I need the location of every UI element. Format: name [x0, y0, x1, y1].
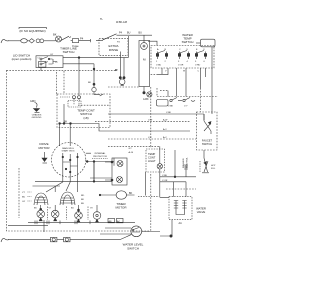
buzzer circle: [141, 43, 148, 50]
coil stack right: [184, 165, 188, 169]
svg-text:SWITCH: SWITCH: [182, 40, 194, 44]
console dashed box left: [7, 70, 151, 231]
svg-text:A-BK: A-BK: [143, 98, 149, 101]
svg-text:INTERNAL: INTERNAL: [95, 152, 107, 155]
svg-text:MOTOR: MOTOR: [38, 146, 50, 150]
pump box M: [139, 41, 150, 87]
wire to water level switch: [70, 235, 132, 240]
svg-text:C2: C2: [55, 62, 58, 64]
dashed harness line: [7, 69, 116, 71]
right bus lines: [108, 114, 204, 120]
junction dot: [143, 92, 145, 94]
connector box top right: [201, 39, 216, 47]
TEMP CONT SWITCH box: [57, 94, 110, 128]
svg-text:TL: TL: [100, 18, 103, 21]
svg-text:P4: P4: [117, 42, 120, 44]
svg-text:P4: P4: [119, 32, 123, 35]
svg-text:C: C: [179, 49, 181, 51]
valve coil 1: [174, 201, 178, 211]
extra rinse box: [99, 39, 128, 56]
svg-text:BK: BK: [53, 33, 57, 37]
power cord hook: [1, 39, 9, 43]
arrow switch right: [204, 150, 208, 172]
lid switch box: [36, 56, 63, 68]
label (IF SO EQUIPPED): [19, 28, 47, 29]
dashed stub left of pump box: [108, 86, 139, 88]
wire to buzzer / water temp: [117, 34, 153, 36]
wire A to right: [63, 57, 128, 59]
faucet switch box: [197, 112, 218, 150]
svg-text:6: 6: [204, 61, 206, 63]
fuse F1: [71, 40, 73, 42]
wires below motor: [63, 176, 78, 182]
svg-text:BK: BK: [88, 82, 91, 84]
svg-text:V-OR: V-OR: [178, 65, 184, 67]
svg-text:V-Y: V-Y: [184, 106, 188, 108]
svg-text:BK: BK: [129, 192, 133, 195]
dashed from terminals right: [78, 104, 110, 106]
svg-text:SWITCH: SWITCH: [63, 50, 75, 54]
valve coil 2: [182, 201, 186, 211]
svg-text:AC: AC: [117, 220, 120, 223]
ground arrow left of motor: [44, 152, 46, 158]
water valve box: [169, 197, 192, 220]
dashed mid right: [160, 90, 168, 92]
vertical from extra rinse wire: [127, 36, 129, 58]
right mid vertical: [174, 150, 176, 177]
svg-text:VT: VT: [49, 208, 52, 210]
bell shapes (motor protector): [34, 193, 48, 205]
timer line switch contact: [61, 36, 69, 40]
console light box: [112, 158, 127, 185]
pressure switch symbols right: [167, 91, 169, 97]
svg-text:A-V: A-V: [163, 128, 167, 131]
right horizontal wires to valve: [160, 176, 196, 178]
circle TD: [147, 92, 152, 97]
svg-text:V-BK: V-BK: [168, 106, 174, 108]
svg-text:P4: P4: [80, 37, 84, 41]
svg-text:GY: GY: [22, 201, 26, 203]
inline component 2: [64, 237, 70, 241]
water temp box drops: [158, 47, 212, 114]
svg-text:BK: BK: [34, 208, 37, 210]
svg-text:GROUND: GROUND: [32, 117, 42, 119]
svg-text:TEMP: TEMP: [148, 152, 155, 156]
inline component 1: [51, 237, 57, 241]
svg-text:RINSE: RINSE: [109, 48, 118, 52]
svg-text:VALVE: VALVE: [197, 210, 206, 214]
drop to temp cont terminals: [78, 58, 80, 95]
svg-text:BK: BK: [81, 199, 84, 201]
svg-text:(x8): (x8): [83, 116, 88, 120]
svg-text:A-C: A-C: [163, 136, 167, 139]
svg-text:BU: BU: [71, 208, 74, 210]
svg-text:5: 5: [195, 61, 197, 63]
svg-text:V-RD: V-RD: [195, 65, 201, 67]
svg-text:BU: BU: [22, 197, 25, 199]
svg-text:GY: GY: [90, 208, 94, 210]
connector oval: [21, 39, 28, 43]
svg-text:MOTOR: MOTOR: [115, 206, 127, 210]
svg-text:2: 2: [165, 61, 167, 63]
drive motor dashed circle: [51, 143, 85, 177]
terminal dashed box: [68, 101, 81, 108]
svg-text:W: W: [183, 71, 186, 73]
solenoid bottom bus: [28, 221, 135, 223]
svg-text:V-BU: V-BU: [156, 65, 162, 67]
bottom left cross component: [43, 220, 45, 232]
wire: [27, 40, 29, 42]
feed wires into motor: [60, 124, 71, 147]
solenoid 2: [51, 210, 59, 218]
svg-text:Fuse: Fuse: [72, 44, 79, 48]
svg-text:GY: GY: [129, 148, 133, 150]
svg-text:V-OR: V-OR: [162, 180, 168, 182]
svg-text:WASHER: WASHER: [182, 158, 185, 168]
water level switch: [131, 226, 142, 237]
svg-text:FAUCET: FAUCET: [202, 138, 213, 142]
wire bus above solenoids: [33, 181, 95, 186]
connector block mid: [157, 100, 169, 107]
svg-text:V-BU: V-BU: [162, 175, 168, 177]
temp cont connector terminals: [73, 96, 76, 99]
extra water temp drops: [162, 68, 206, 97]
solenoid 3: [75, 212, 83, 220]
bottom long wire with hook: [1, 238, 9, 242]
svg-text:4: 4: [187, 61, 189, 63]
svg-text:(IF SO EQUIPPED): (IF SO EQUIPPED): [19, 29, 45, 33]
svg-text:M: M: [143, 58, 146, 62]
dashed stub below TD: [157, 96, 218, 98]
wire: [44, 40, 56, 42]
TEMP CONT LIGHT box: [146, 149, 165, 172]
svg-text:FILL: FILL: [211, 168, 216, 170]
svg-text:V: V: [165, 71, 167, 73]
svg-text:A-W: A-W: [163, 119, 168, 122]
connector circle X: [56, 36, 62, 42]
small relay boxes bottom middle: [108, 218, 115, 222]
svg-text:1: 1: [156, 61, 158, 63]
console right edge dashed: [150, 87, 152, 148]
svg-text:CONTROL: CONTROL: [187, 157, 189, 168]
temp cont light bulb: [157, 164, 162, 169]
svg-text:START WDG: START WDG: [62, 150, 75, 153]
water temp switch box: [151, 46, 214, 69]
wire B: [63, 64, 94, 69]
svg-text:V-BK: V-BK: [166, 112, 172, 114]
wires down to water valve: [174, 182, 187, 197]
svg-text:W-BK-128: W-BK-128: [116, 21, 128, 24]
svg-text:LIGHT: LIGHT: [148, 159, 156, 163]
svg-text:CONT: CONT: [148, 155, 156, 159]
wire: [8, 40, 21, 42]
svg-text:3: 3: [178, 61, 180, 63]
svg-text:C: C: [198, 71, 200, 73]
vertical to dashed corner: [145, 172, 147, 196]
solenoid 1: [37, 210, 45, 218]
diamond connector: [29, 39, 34, 43]
svg-text:BU: BU: [139, 32, 143, 35]
svg-text:E: E: [196, 49, 198, 51]
svg-text:MAIN WDG: MAIN WDG: [62, 147, 74, 150]
dashed vertical x56.5: [56, 72, 58, 94]
entry wire: [148, 41, 157, 45]
lid switch contacts: [40, 58, 42, 60]
wire L inside: [59, 124, 190, 132]
svg-text:HOT: HOT: [211, 165, 216, 167]
solenoid 4: [93, 212, 101, 220]
wire: [79, 39, 91, 42]
switch chain from lid wire B: [93, 83, 95, 85]
svg-text:(open position): (open position): [12, 57, 32, 61]
harness dashed box motor: [18, 168, 20, 218]
svg-text:RD: RD: [81, 195, 85, 197]
wires exit right: [86, 153, 114, 161]
svg-text:SWITCH: SWITCH: [202, 142, 212, 146]
svg-text:GY: GY: [50, 54, 54, 56]
svg-text:CHASSIS: CHASSIS: [32, 114, 42, 117]
wire from valve down-left: [160, 220, 172, 236]
svg-text:A-10: A-10: [129, 151, 134, 154]
connector circles: [36, 39, 40, 43]
svg-text:PROTECTOR: PROTECTOR: [93, 156, 107, 158]
svg-text:BU: BU: [81, 203, 84, 205]
svg-text:AA: AA: [179, 222, 183, 225]
vertical into temp cont box: [63, 104, 65, 124]
svg-text:V-C: V-C: [148, 137, 152, 139]
solenoid divider dashes: [48, 207, 89, 221]
svg-text:VT: VT: [22, 192, 25, 194]
svg-text:BU: BU: [127, 32, 131, 35]
timer motor: [116, 191, 126, 199]
extra rinse switch: [96, 34, 117, 41]
svg-text:SWITCH: SWITCH: [127, 246, 139, 250]
svg-text:A: A: [157, 48, 159, 51]
dashed vertical x64: [63, 71, 65, 94]
console light bulb: [119, 79, 125, 85]
